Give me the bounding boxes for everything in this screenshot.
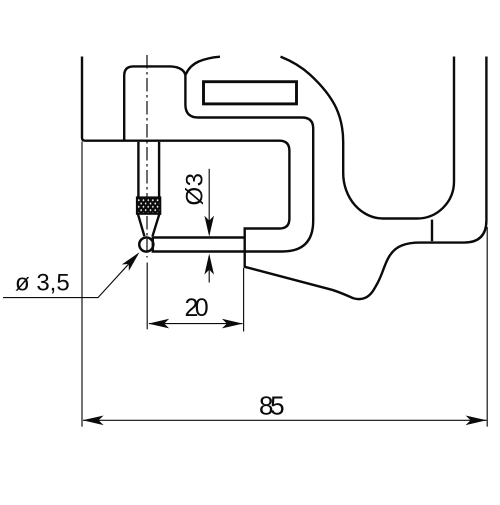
- spindle taper (cone): [138, 214, 160, 236]
- svg-text:ø 3,5: ø 3,5: [15, 270, 70, 297]
- leader line ø 3,5: [3, 254, 138, 297]
- contact ball tip: [139, 238, 153, 252]
- dimension line Ø3 lower: [208, 256, 210, 283]
- svg-text:Ø3: Ø3: [182, 173, 209, 206]
- knurled grip section: [137, 197, 160, 213]
- arrowhead 85 right: [466, 416, 487, 426]
- window cutout rectangle: [204, 82, 297, 104]
- frame top edge, left hump ending at crop line: [186, 57, 220, 75]
- arrowhead Ø3 top: [204, 216, 214, 237]
- arrowhead Ø3 bottom: [204, 254, 214, 275]
- svg-text:20: 20: [185, 294, 209, 322]
- arrowhead 85 left: [83, 416, 104, 426]
- arrowhead leader ø 3,5: [122, 249, 143, 271]
- extension line left (for 85): [81, 142, 83, 427]
- arrowhead 20 right: [222, 319, 243, 329]
- spindle housing (capsule) and inner throat contour incl. anvil bar: [124, 66, 313, 251]
- extension line right (for 20): [243, 268, 245, 332]
- dimension line 20: [149, 323, 243, 325]
- spindle stem: [138, 142, 159, 198]
- arrowhead 20 left: [148, 319, 169, 329]
- dimension line 85: [83, 419, 487, 421]
- frame body outline: left edge, bottom step, foot, right column outer edge: [82, 57, 486, 300]
- extension line right (for 85): [486, 227, 488, 427]
- extension line below ball (for 20): [146, 263, 148, 330]
- anvil joint tick: [431, 220, 433, 242]
- svg-text:85: 85: [259, 390, 285, 420]
- centerline (dash-dot) of spindle: [146, 55, 148, 258]
- dimension line Ø3 upper: [208, 169, 210, 234]
- frame outer arc (top right) and inner throat right side: [281, 57, 455, 219]
